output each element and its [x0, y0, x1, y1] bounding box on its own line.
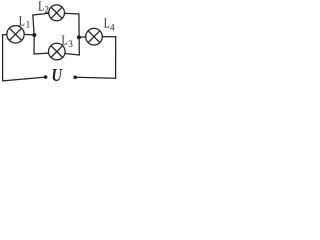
node B junction dot — [77, 35, 81, 39]
wire box right vertical — [78, 14, 80, 55]
wire node B to L4 — [79, 36, 86, 38]
svg-text:2: 2 — [44, 5, 49, 15]
wire L4 to right border — [102, 36, 116, 38]
wire bottom branch right — [65, 54, 79, 56]
svg-text:L: L — [62, 33, 68, 48]
lamp L1 — [7, 26, 24, 43]
svg-text:L: L — [19, 13, 25, 28]
wire left border vertical — [2, 35, 4, 81]
wire right border vertical — [115, 37, 117, 78]
wire bottom-left segment — [3, 77, 46, 81]
svg-text:4: 4 — [110, 22, 115, 32]
svg-text:L: L — [38, 0, 44, 13]
wire box left vertical lower — [33, 35, 35, 54]
lamp L4 — [86, 28, 103, 45]
wire bottom-right segment — [75, 76, 115, 79]
lamp L2 — [49, 5, 65, 21]
lamp L3 — [49, 43, 66, 60]
terminal dot left of U — [44, 75, 48, 79]
svg-text:1: 1 — [26, 20, 31, 30]
node A junction dot — [32, 33, 36, 37]
svg-text:L: L — [104, 16, 110, 31]
svg-text:U: U — [52, 65, 63, 84]
wire border to lamp L1 — [3, 34, 7, 36]
wire L1 to node A — [24, 33, 34, 36]
wire box left vertical upper — [33, 15, 34, 35]
terminal dot right of U — [73, 76, 77, 80]
wire top branch left — [33, 13, 49, 15]
wire bottom branch left — [34, 52, 49, 55]
wire top branch right — [64, 12, 79, 15]
svg-text:3: 3 — [68, 39, 73, 49]
